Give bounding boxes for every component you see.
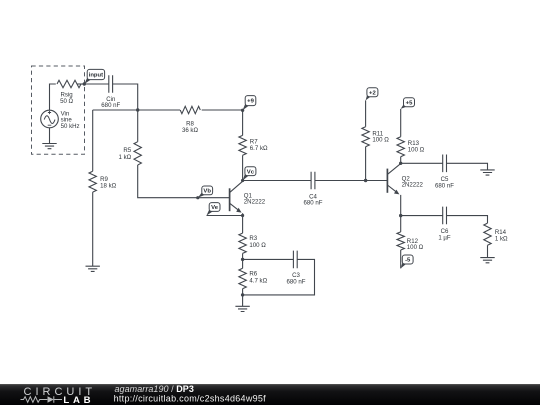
transistor Q1 2N2222 (230, 181, 243, 215)
svg-text:50 kHz: 50 kHz (61, 123, 80, 130)
resistor R3 (239, 233, 246, 253)
svg-text:-5: -5 (405, 258, 411, 264)
svg-text:50 Ω: 50 Ω (60, 98, 73, 105)
wire R11 to base node (365, 147, 367, 181)
svg-text:100 Ω: 100 Ω (408, 147, 425, 154)
capacitor C4 (311, 172, 315, 190)
wire emitter down to R12 (400, 216, 402, 232)
wire R5 to Q1 base (138, 165, 230, 198)
wire R6 to ground node (242, 289, 244, 295)
svg-text:6.7 kΩ: 6.7 kΩ (250, 145, 268, 152)
node Vb (junction dot) (196, 196, 199, 199)
flag +9 (243, 102, 250, 110)
ground (C5) (480, 170, 494, 175)
svg-text:input: input (89, 73, 103, 79)
resistor R11 (362, 127, 369, 147)
wire node to C3 (243, 258, 294, 260)
wire R7 to Vc node (242, 155, 244, 180)
wire C4 to R11 node (315, 180, 366, 182)
wire input to Cin (84, 83, 109, 85)
transistor Q2 2N2222 (387, 164, 400, 216)
wire to Q2 base (366, 180, 388, 182)
svg-text:4.7 kΩ: 4.7 kΩ (249, 278, 267, 285)
svg-text:680 nF: 680 nF (304, 200, 323, 207)
svg-text:Vb: Vb (203, 189, 211, 195)
wire C6 to R14 (447, 216, 488, 224)
svg-text:2N2222: 2N2222 (402, 182, 424, 189)
footer bar (0, 384, 540, 405)
node input (junction dot) (83, 82, 86, 85)
wire Vc to C4 (243, 180, 312, 182)
ground (R9) (86, 266, 100, 271)
svg-text:18 kΩ: 18 kΩ (100, 182, 117, 189)
wire R13 to collector node (400, 157, 402, 164)
svg-text:+5: +5 (406, 100, 413, 106)
svg-text:100 Ω: 100 Ω (407, 244, 424, 251)
logo schematic squiggle (resistor + diode) (21, 396, 63, 403)
capacitor C5 (443, 155, 447, 173)
resistor R6 (239, 268, 246, 288)
wire node down to R6 (242, 259, 244, 268)
flag Vc (243, 172, 250, 180)
wire +2 to R11 (365, 100, 367, 126)
node R3/R6/C3 (junction dot) (241, 258, 244, 261)
wire Ve stub (207, 215, 243, 217)
svg-text:agamarra190 / DP3: agamarra190 / DP3 (115, 384, 194, 394)
svg-text:1 kΩ: 1 kΩ (495, 235, 508, 242)
node Q2 emitter (junction dot) (399, 214, 402, 217)
ground (R6) (242, 295, 244, 306)
wire Ve node down to R3 (242, 216, 244, 234)
node Vc (junction dot) (241, 179, 244, 182)
resistor R12 (397, 232, 404, 250)
svg-text:+2: +2 (369, 90, 376, 96)
svg-text:2N2222: 2N2222 (244, 199, 266, 206)
svg-text:100 Ω: 100 Ω (372, 137, 389, 144)
capacitor Cin (109, 75, 113, 92)
wire +5 to R13 (400, 109, 402, 137)
voltage source V1 (Vin) symbol (41, 110, 59, 128)
svg-text:Ve: Ve (211, 205, 219, 211)
node R11/base (junction dot) (364, 179, 367, 182)
resistor R14 (484, 223, 491, 245)
wire R8 to +9 node (202, 109, 243, 111)
resistor R7 (239, 135, 246, 155)
flag input (84, 76, 91, 84)
wire R3 to node (242, 253, 244, 259)
wire source bottom to ground (49, 128, 51, 144)
resistor R9 (89, 171, 96, 192)
svg-text:680 nF: 680 nF (101, 102, 120, 109)
flag Vb (198, 192, 206, 198)
wire bias node down to R5 (137, 110, 139, 142)
svg-text:100 Ω: 100 Ω (249, 242, 266, 249)
svg-text:680 nF: 680 nF (435, 183, 454, 190)
wire Rsig to input node (78, 83, 85, 85)
wire bias node to R8 (93, 109, 180, 111)
flag +5 (401, 104, 408, 109)
svg-text:http://circuitlab.com/c2shs4d6: http://circuitlab.com/c2shs4d64w95f (114, 394, 267, 404)
svg-text:LAB: LAB (63, 395, 94, 405)
svg-text:+9: +9 (247, 99, 254, 105)
wire bias rail down to R9 (92, 110, 94, 171)
wire R12 to -5 (400, 250, 402, 268)
wire source top to Rsig (50, 84, 56, 110)
resistor R8 (180, 106, 200, 113)
ground (source) (42, 144, 56, 149)
flag +2 (366, 94, 372, 101)
resistor Rsig (57, 80, 81, 87)
svg-text:680 nF: 680 nF (287, 279, 306, 286)
node Q2 collector (junction dot) (399, 162, 402, 165)
svg-text:1 µF: 1 µF (438, 235, 451, 242)
ground (R14) (480, 258, 494, 263)
wire Cin to corner and down to bias node (113, 84, 138, 110)
capacitor C6 (443, 207, 447, 225)
svg-text:36 kΩ: 36 kΩ (182, 127, 199, 134)
wire collector node to C5 (401, 162, 443, 164)
flag -5 (401, 261, 407, 269)
svg-text:Vc: Vc (247, 169, 255, 175)
svg-text:1 kΩ: 1 kΩ (119, 154, 132, 161)
capacitor C3 (293, 251, 297, 269)
node bias (junction dot) (136, 108, 139, 111)
wire R9 to ground (92, 192, 94, 266)
flag Ve (207, 208, 214, 215)
node Ve (junction dot) (241, 214, 244, 217)
node +9 (junction dot) (241, 109, 244, 112)
node R6/C3 bottom (junction dot) (241, 293, 244, 296)
wire emitter node to C6 (401, 215, 443, 217)
resistor R13 (397, 137, 404, 157)
dashed box (signal source boundary) (32, 66, 85, 154)
wire +9 node down to R7 (242, 110, 244, 135)
wire R14 to ground (487, 245, 489, 257)
resistor R5 (134, 142, 141, 165)
wire C5 to ground (447, 163, 488, 170)
wire C3 right and down (243, 259, 315, 295)
